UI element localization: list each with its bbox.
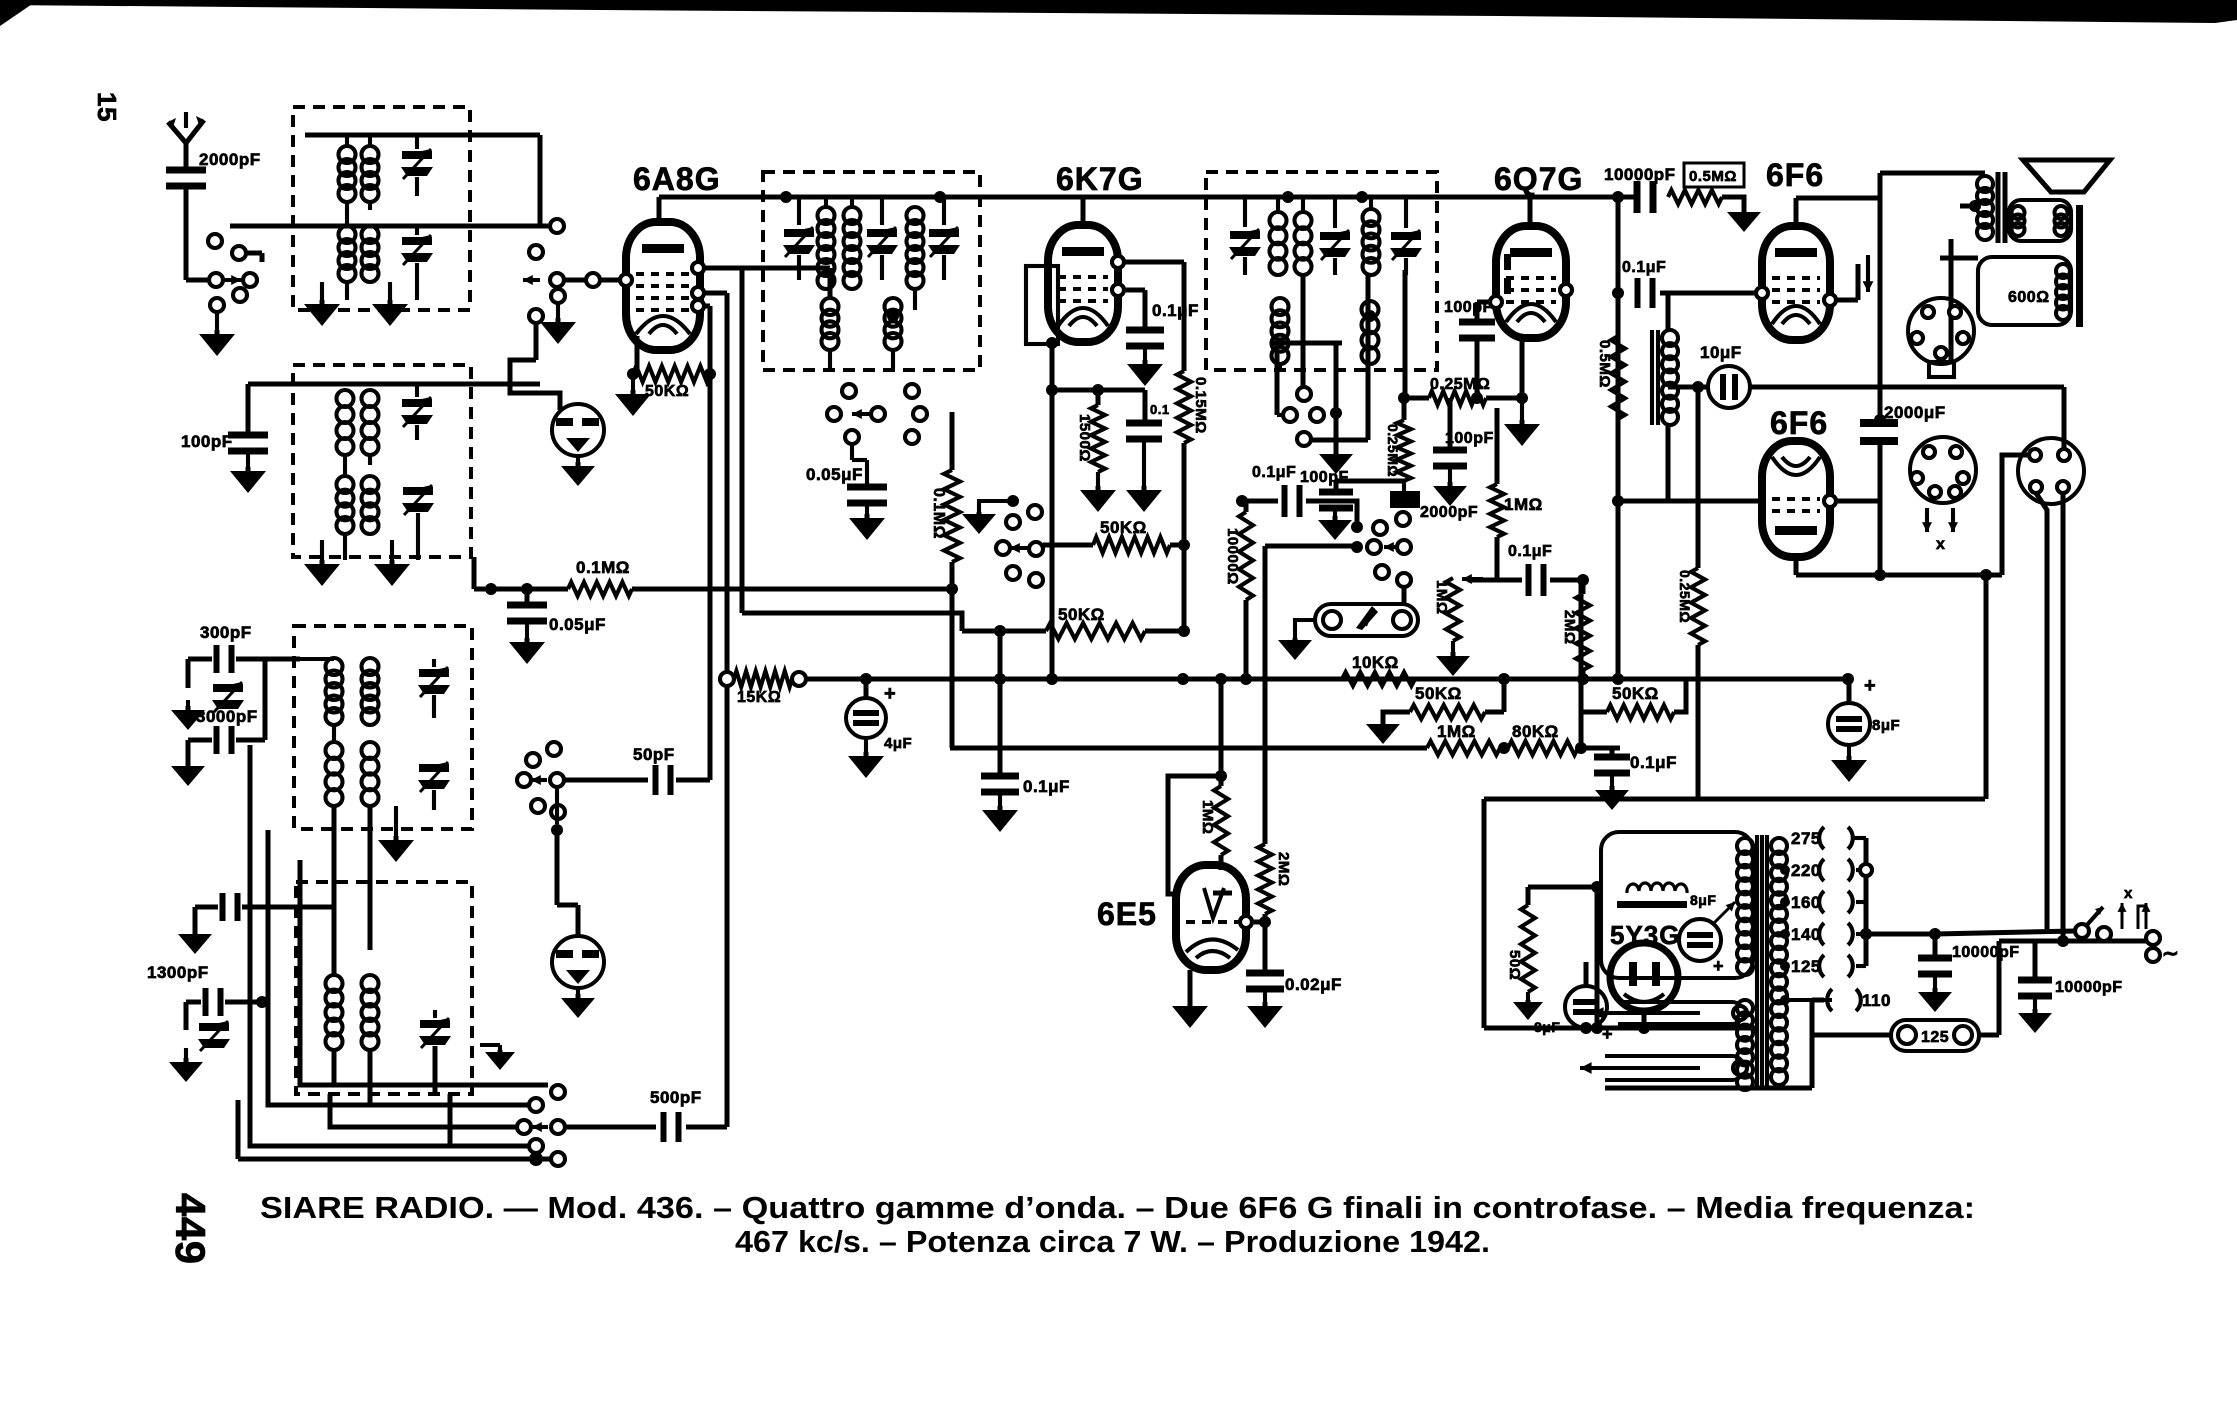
coil IF2 low2 xyxy=(1362,301,1379,318)
electrolytic 8uF b xyxy=(1565,986,1607,1028)
heater bar xyxy=(1617,901,1687,908)
coil L4b xyxy=(362,476,379,493)
node xyxy=(946,583,958,595)
wire osc row 384 xyxy=(248,382,540,387)
svg-text:110: 110 xyxy=(1862,991,1891,1010)
switch contact xyxy=(1029,542,1043,556)
svg-text:50KΩ: 50KΩ xyxy=(1100,518,1147,537)
arrow pin x1 xyxy=(1925,508,1929,532)
svg-text:2000pF: 2000pF xyxy=(1420,504,1478,521)
svg-text:0.1μF: 0.1μF xyxy=(1622,259,1666,276)
tube 6A8G xyxy=(626,222,700,350)
switch contact xyxy=(517,773,531,787)
OT core xyxy=(1996,172,2001,243)
boxed label 0.5MΩ xyxy=(1684,163,1744,187)
switch contact xyxy=(547,742,561,756)
switch contact xyxy=(233,288,247,302)
ground 1M xyxy=(1451,641,1455,652)
svg-text:8μF: 8μF xyxy=(1690,892,1716,908)
svg-text:0.1μF: 0.1μF xyxy=(1508,543,1552,560)
capacitor 3000pF xyxy=(214,726,220,754)
coil L1a xyxy=(339,146,356,163)
capacitor 2000pF xyxy=(166,167,206,174)
switch contact xyxy=(996,541,1010,555)
capacitor 0.1uF het xyxy=(981,773,1019,780)
dashed box IF1 xyxy=(763,172,980,370)
capacitor 500pF xyxy=(661,1112,667,1142)
node xyxy=(1929,928,1941,940)
wire 2M xyxy=(1263,546,1268,844)
svg-text:50KΩ: 50KΩ xyxy=(1058,605,1105,624)
resistor 0.5M xyxy=(1668,190,1722,204)
node xyxy=(1215,770,1227,782)
trimmer C T2 xyxy=(402,237,432,245)
node xyxy=(1364,310,1376,322)
switch contact xyxy=(586,273,600,287)
arrow 8uF xyxy=(1712,902,1735,925)
wire 6K7G plate xyxy=(1124,260,1184,265)
svg-text:0.1MΩ: 0.1MΩ xyxy=(576,558,630,577)
grid box 6K7G xyxy=(1026,266,1058,344)
svg-text:0.25MΩ: 0.25MΩ xyxy=(1385,424,1401,477)
svg-text:1MΩ: 1MΩ xyxy=(1199,800,1216,834)
scan border top band xyxy=(0,0,2237,23)
capacitor 0.1uF coupling xyxy=(1635,278,1641,308)
arrow up a xyxy=(2121,903,2124,929)
svg-text:10000pF: 10000pF xyxy=(1952,944,2020,961)
wire 727 down xyxy=(725,293,730,1127)
svg-text:10000pF: 10000pF xyxy=(2055,979,2123,996)
diode symbol V2d xyxy=(552,936,604,988)
wire T3 xyxy=(415,384,419,397)
pin xyxy=(692,300,704,312)
wire to diode V1d xyxy=(534,323,539,360)
svg-text:0.25MΩ: 0.25MΩ xyxy=(1677,570,1693,623)
svg-text:8μF: 8μF xyxy=(1534,1019,1560,1035)
coil L6b xyxy=(362,742,379,759)
electrolytic 10uF xyxy=(1708,366,1750,408)
bus 576 xyxy=(1878,573,2002,578)
svg-text:160: 160 xyxy=(1791,893,1821,912)
switch contact xyxy=(1297,432,1311,446)
dashed box band3 xyxy=(294,626,472,829)
ground below box2 right xyxy=(390,560,395,564)
trimmer IF2 c xyxy=(1391,232,1421,240)
switch contact xyxy=(551,805,565,819)
svg-text:50Ω: 50Ω xyxy=(1506,950,1523,980)
wire 6E5 bracket xyxy=(1168,776,1221,894)
ground xyxy=(193,930,198,934)
wire pill right up xyxy=(1402,586,1407,606)
wire box4 xyxy=(300,905,334,910)
svg-text:+: + xyxy=(1713,956,1724,976)
wire vert 557 xyxy=(555,219,560,226)
wire avc right xyxy=(632,587,952,592)
transformer primary coil xyxy=(1771,838,1787,854)
coil IF1 p2 xyxy=(844,207,861,224)
switch arrow xyxy=(1308,413,1322,417)
switch contact xyxy=(2146,948,2160,962)
heater arrow 2 xyxy=(1580,1066,1700,1070)
svg-text:x: x xyxy=(1936,536,1945,553)
ground xyxy=(1610,775,1614,786)
svg-text:1MΩ: 1MΩ xyxy=(1437,722,1476,741)
switch contact xyxy=(529,1139,543,1153)
ground xyxy=(1933,976,1937,988)
resistor 50K left xyxy=(1410,705,1485,719)
switch contact xyxy=(2146,931,2160,945)
wire switch row 226 xyxy=(230,224,548,229)
OT primary coil xyxy=(1977,176,1993,192)
tube 5Y3G xyxy=(1610,943,1678,1011)
wire 6F6l right xyxy=(1836,499,1880,504)
transformer heater winding 1 xyxy=(1618,1002,1743,1024)
wire 950 corner xyxy=(950,589,955,748)
wire to 6F6 lower xyxy=(1613,499,1762,504)
wire 4pin top xyxy=(2062,387,2067,449)
svg-text:0.15MΩ: 0.15MΩ xyxy=(1192,377,1209,434)
svg-text:∼: ∼ xyxy=(2162,943,2179,965)
wire xyxy=(1182,304,1187,371)
wire coils join xyxy=(345,202,349,226)
resistor 0.1M vertical xyxy=(944,470,960,562)
trimmer C T4 xyxy=(403,487,433,495)
capacitor 0.1uF seriesB xyxy=(1526,564,1532,596)
speaker cone xyxy=(2023,160,2110,192)
svg-text:50KΩ: 50KΩ xyxy=(1612,684,1659,703)
electrolytic 8uF main xyxy=(1828,703,1870,745)
resistor 1M mid vertical xyxy=(1490,484,1504,537)
dashed box oscillator transformer xyxy=(293,365,471,557)
wire 6K7G grid cap xyxy=(1081,197,1086,225)
wire 1999 down xyxy=(1997,941,2002,1035)
wire T2 xyxy=(415,226,419,235)
svg-text:2MΩ: 2MΩ xyxy=(1275,852,1292,886)
svg-text:0.05μF: 0.05μF xyxy=(806,465,863,484)
ground 3000pF xyxy=(186,762,191,766)
node xyxy=(485,583,497,595)
svg-text:0.1μF: 0.1μF xyxy=(1630,753,1677,772)
resistor 50K row2 xyxy=(1046,623,1145,639)
wire screen right xyxy=(704,291,727,296)
capacitor 0.05uF second xyxy=(507,602,547,609)
wire 1000 down xyxy=(998,631,1003,679)
ground tuning xyxy=(1295,620,1315,638)
wire xyxy=(1301,275,1306,386)
coil IF1 s1 xyxy=(907,207,924,224)
pin xyxy=(692,262,704,274)
trimmer IF2 a xyxy=(1230,231,1260,239)
node xyxy=(1007,495,1019,507)
node xyxy=(780,191,792,203)
wire 2M down xyxy=(1581,670,1586,679)
capacitor 100pF left xyxy=(1319,489,1353,496)
switch contact xyxy=(531,799,545,813)
node xyxy=(1046,337,1058,349)
wire tap out xyxy=(1866,932,1935,937)
switch contact xyxy=(209,273,223,287)
svg-text:50KΩ: 50KΩ xyxy=(1415,684,1462,703)
trimmer C T6 xyxy=(419,764,449,772)
node xyxy=(1259,916,1271,928)
wire k xyxy=(635,336,640,374)
mains switch xyxy=(2075,924,2089,938)
wire choke xyxy=(1666,293,1671,330)
ground xyxy=(1448,468,1452,482)
ground diode2 xyxy=(576,988,580,994)
wire IF2 sel vert xyxy=(1334,343,1339,455)
wire 50 top xyxy=(1528,885,1597,890)
ground xyxy=(1142,441,1146,486)
trimmer IF1 a xyxy=(784,229,814,237)
switch contact xyxy=(1297,387,1311,401)
wire box3-box4 b xyxy=(368,806,373,950)
wire res bottom xyxy=(950,562,955,589)
wire 6K7G k down xyxy=(1050,343,1055,679)
switch contact xyxy=(905,430,919,444)
capacitor cathode xyxy=(1126,420,1162,427)
choke core xyxy=(1650,330,1654,425)
coil L4a xyxy=(337,476,354,493)
wire 6Q7G grid cap xyxy=(1528,197,1533,226)
wire 3000pF xyxy=(188,738,212,743)
coil L3b xyxy=(362,390,379,407)
wire box1 top xyxy=(305,133,540,138)
pin xyxy=(1490,296,1502,308)
wire to 6A8G grid xyxy=(600,278,630,283)
coil lower secondary xyxy=(1737,1000,1753,1016)
node xyxy=(1498,673,1510,685)
wire IF2 sel left xyxy=(1275,343,1280,415)
socket 5pin lower xyxy=(1910,437,1976,503)
resistor 0.25M right vert xyxy=(1691,568,1705,645)
resistor 2M vertical xyxy=(1576,594,1590,670)
capacitor 0.1uF 6K7 xyxy=(1126,327,1164,334)
ground xyxy=(1263,991,1267,1002)
wire IF2 sel row xyxy=(1271,341,1342,346)
wire g1 right xyxy=(704,304,710,309)
node xyxy=(1612,191,1624,203)
node xyxy=(1874,569,1886,581)
coil L5b xyxy=(362,658,379,675)
ground below box1 right xyxy=(388,300,393,304)
wire spk xyxy=(1949,239,1954,364)
capacitor 100pF grid xyxy=(1459,319,1495,326)
wire xyxy=(1369,197,1373,209)
wire box3b xyxy=(332,725,336,742)
wire osc anode xyxy=(704,266,830,271)
wire 300pF xyxy=(188,657,212,662)
electrolytic 4uF xyxy=(846,698,886,738)
resistor 50K cathode xyxy=(633,366,710,382)
wire 2047 down xyxy=(2036,493,2047,929)
trimmer C T3 xyxy=(402,399,432,407)
resistor 0.15M vertical xyxy=(1177,371,1191,443)
svg-text:10000Ω: 10000Ω xyxy=(1224,528,1241,585)
wire 6F6l plate xyxy=(1794,557,1799,575)
svg-text:100pF: 100pF xyxy=(181,432,233,451)
wire 6Q7G k xyxy=(1520,338,1525,398)
wire 6A8G grid cap xyxy=(657,197,662,222)
wire 50pF xyxy=(564,778,648,783)
node xyxy=(1330,407,1342,419)
dashed box antenna transformer xyxy=(293,107,470,310)
coil IF1 low1 xyxy=(822,298,839,315)
wire y941 xyxy=(1999,939,2146,944)
coil IF2 p2 xyxy=(1295,212,1312,229)
switch contact xyxy=(551,289,565,303)
resistor 50K row1 xyxy=(1093,537,1170,553)
bus y748 xyxy=(950,746,1427,751)
switch contact xyxy=(550,273,564,287)
trimmer IF1 b xyxy=(867,229,897,237)
node xyxy=(256,996,268,1008)
svg-text:0.1μF: 0.1μF xyxy=(1252,464,1296,481)
wire row580 xyxy=(1468,578,1522,583)
svg-text:6F6: 6F6 xyxy=(1770,405,1828,441)
wire tube to 2M xyxy=(1252,920,1265,925)
wire 50K gnd xyxy=(1383,712,1410,722)
tube 6F6 lower xyxy=(1762,441,1830,557)
switch contact xyxy=(517,1120,531,1134)
switch contact xyxy=(871,407,885,421)
svg-text:0.5MΩ: 0.5MΩ xyxy=(1596,340,1613,388)
wire T1 xyxy=(415,135,419,149)
node xyxy=(2057,935,2069,947)
arrow pin x2 xyxy=(1951,508,1955,532)
arrow B+ xyxy=(1866,255,1870,292)
switch contact xyxy=(1310,408,1324,422)
wire 6F6u pin right xyxy=(1836,298,1858,303)
ground below k xyxy=(1520,398,1524,420)
svg-text:x: x xyxy=(2124,885,2133,902)
svg-text:10μF: 10μF xyxy=(1700,343,1742,362)
switch arrow xyxy=(1010,546,1028,550)
trimmer IF1 c xyxy=(929,229,959,237)
coil IF2 s1 xyxy=(1363,209,1380,226)
node xyxy=(994,625,1006,637)
wire 2063 down xyxy=(2061,493,2066,941)
svg-text:3000pF: 3000pF xyxy=(196,707,258,726)
wire eye feed xyxy=(1265,544,1352,549)
wire pill xyxy=(1979,1033,1999,1038)
wire sw down xyxy=(555,789,559,824)
wire 1880 down xyxy=(1878,173,1883,420)
coil IF2 p1 xyxy=(1270,212,1287,229)
svg-text:10KΩ: 10KΩ xyxy=(1352,653,1399,672)
pilot lamp 125 xyxy=(1891,1020,1979,1051)
wire 6E5 feed xyxy=(1219,679,1224,776)
svg-text:4μF: 4μF xyxy=(884,735,912,752)
switch contact xyxy=(827,407,841,421)
wire res down xyxy=(1182,443,1187,545)
pin xyxy=(1756,287,1768,299)
resistor 2M 6E5 xyxy=(1258,844,1272,914)
capacitor 100pF second xyxy=(1433,447,1467,454)
node xyxy=(1969,200,1981,212)
svg-text:6E5: 6E5 xyxy=(1097,896,1157,932)
capacitor 300pF xyxy=(214,645,220,673)
wire 50K right2 xyxy=(1581,710,1607,715)
capacitor 100pF xyxy=(228,432,268,439)
coil IF1 p1 xyxy=(818,207,835,224)
switch contact xyxy=(243,273,257,287)
wire heater return xyxy=(1605,1086,1812,1091)
resistor 15K xyxy=(734,671,792,687)
switch contact xyxy=(1396,512,1410,526)
wire grid xyxy=(1477,300,1496,305)
pin xyxy=(1824,294,1836,306)
wire 6E5 k xyxy=(1188,970,1193,1002)
node xyxy=(1591,881,1603,893)
wire row501 xyxy=(1242,499,1278,504)
svg-text:275: 275 xyxy=(1791,829,1821,848)
capacitor 10000pF a xyxy=(1918,955,1952,962)
wire nest1 xyxy=(300,860,548,1085)
pin xyxy=(620,274,632,286)
wire nest2 xyxy=(268,830,528,1105)
ground xyxy=(998,794,1002,806)
switch contact xyxy=(792,672,806,686)
ground below box2 left xyxy=(320,560,325,564)
coil L2a xyxy=(339,226,356,243)
node xyxy=(1282,191,1294,203)
coil L7a xyxy=(326,975,343,992)
switch arrow xyxy=(852,412,872,416)
ground xyxy=(1333,508,1337,516)
switch contact xyxy=(1283,408,1297,422)
node xyxy=(1577,673,1589,685)
svg-text:1300pF: 1300pF xyxy=(147,963,209,982)
node xyxy=(1046,384,1058,396)
switch contact xyxy=(526,753,540,767)
svg-text:0.5MΩ: 0.5MΩ xyxy=(1689,168,1737,185)
ground 1500 xyxy=(1096,472,1100,486)
resistor 0.25M vertical xyxy=(1397,420,1411,481)
svg-text:0.1μF: 0.1μF xyxy=(1023,777,1070,796)
svg-text:+: + xyxy=(1864,675,1876,697)
wire 1581 vert xyxy=(1579,580,1584,748)
switch contact xyxy=(1006,515,1020,529)
dashed box IF2 xyxy=(1206,172,1437,370)
heater arrow 1 xyxy=(1592,1011,1700,1015)
capacitor 10000pF b xyxy=(2018,977,2052,984)
switch contact xyxy=(720,672,734,686)
socket 4pin xyxy=(2018,438,2084,504)
wire 100pF up xyxy=(246,384,251,433)
switch contact xyxy=(845,430,859,444)
capacitor 0.1uF series xyxy=(1282,485,1288,517)
svg-text:0.25MΩ: 0.25MΩ xyxy=(1430,376,1490,393)
capacitor 0.1uF ps xyxy=(1594,754,1630,761)
pin xyxy=(1112,256,1124,268)
svg-text:6A8G: 6A8G xyxy=(633,161,721,197)
svg-text:0.1: 0.1 xyxy=(1150,402,1170,417)
tube 6Q7G xyxy=(1496,226,1566,338)
svg-text:+: + xyxy=(884,683,896,705)
switch arrow xyxy=(531,778,547,782)
switch contact xyxy=(913,407,927,421)
capacitor 2000pF mica xyxy=(1390,491,1420,508)
svg-text:300pF: 300pF xyxy=(200,623,252,642)
pin xyxy=(1240,916,1252,928)
speaker field coil box xyxy=(1978,257,2071,325)
svg-text:2MΩ: 2MΩ xyxy=(1561,610,1578,644)
dashed box band4 xyxy=(296,882,472,1094)
svg-text:125: 125 xyxy=(1791,957,1821,976)
svg-text:1500Ω: 1500Ω xyxy=(1076,414,1093,462)
ground xyxy=(525,622,529,638)
